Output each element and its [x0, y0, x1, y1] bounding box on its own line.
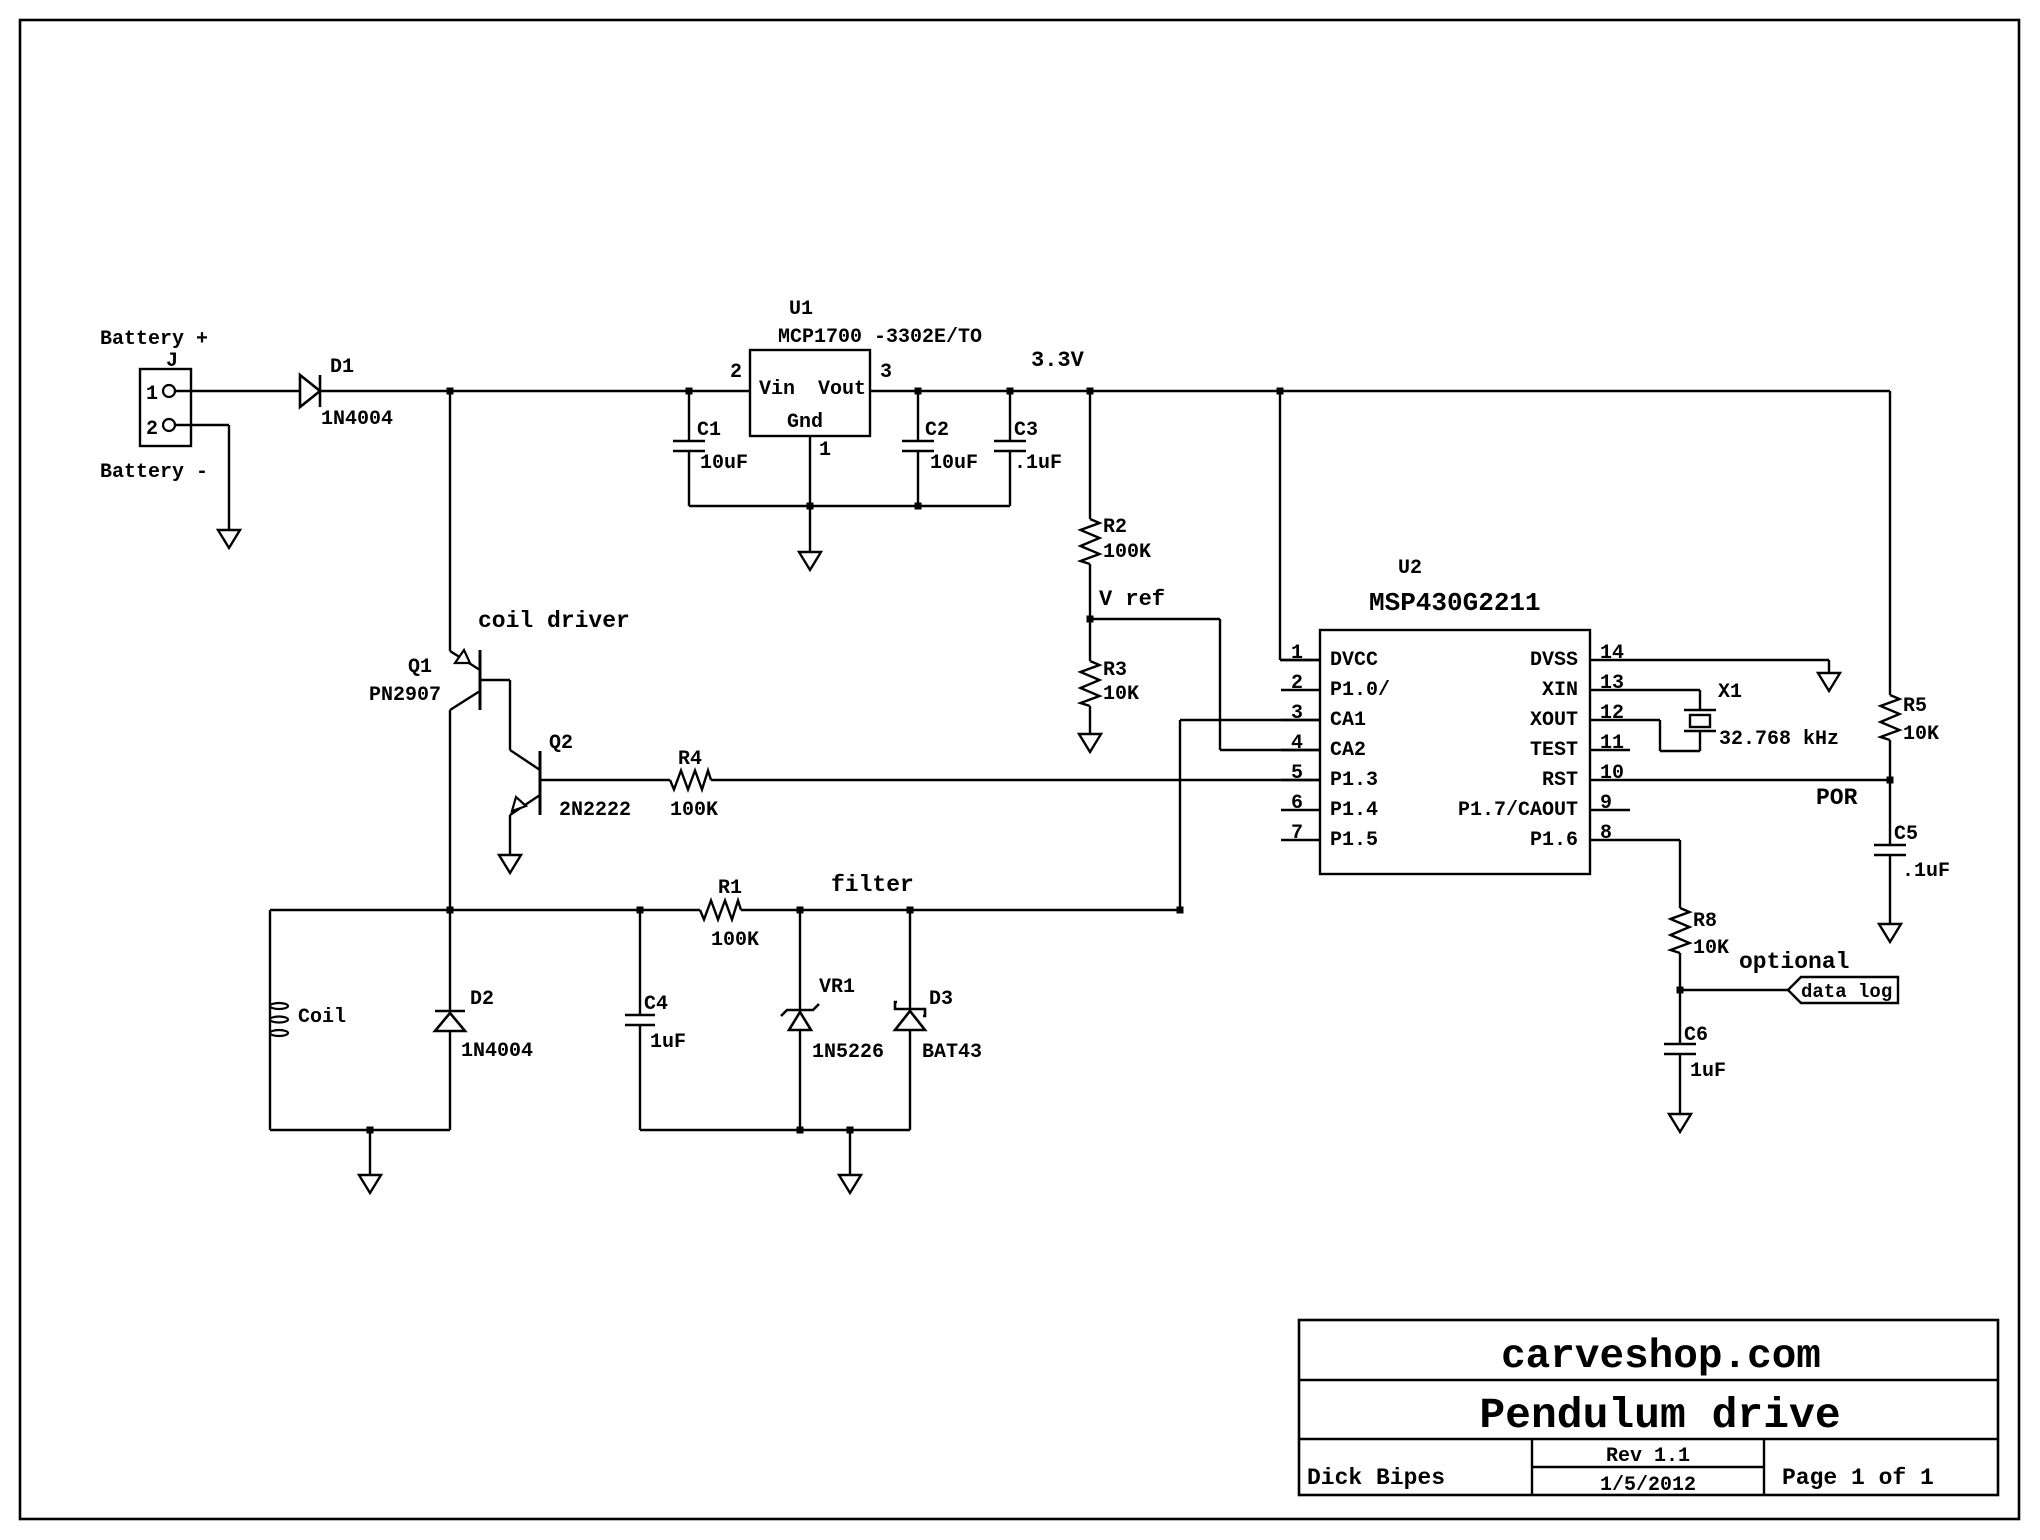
svg-text:POR: POR: [1816, 785, 1858, 811]
wire Q1 base to Q2 collector horizontal: [480, 679, 510, 681]
ground U1: [799, 552, 821, 570]
capacitor C4 symbol: [625, 1014, 655, 1017]
svg-text:C2: C2: [925, 419, 949, 442]
svg-text:10K: 10K: [1693, 937, 1729, 960]
title block divider row1: [1299, 1379, 1998, 1381]
svg-text:1: 1: [1291, 642, 1303, 665]
wire J pin1 to D1 anode: [175, 390, 300, 392]
svg-text:MSP430G2211: MSP430G2211: [1369, 588, 1541, 618]
wire Q1 base to Q2 collector vertical: [509, 680, 511, 750]
wire J pin2 to ground drop: [175, 424, 229, 426]
mcu U2 pin 14 stub: [1590, 659, 1630, 661]
svg-text:10K: 10K: [1903, 723, 1939, 746]
wire R2 top: [1089, 391, 1091, 519]
svg-text:CA1: CA1: [1330, 709, 1366, 732]
svg-text:2: 2: [730, 361, 742, 384]
wire R8 to data log node: [1679, 953, 1681, 990]
wire crystal bottom riser: [1699, 731, 1701, 751]
wire DVSS to ground vertical: [1828, 660, 1830, 673]
svg-text:D3: D3: [929, 988, 953, 1011]
wire into U2 pin 1 DVCC: [1280, 659, 1320, 661]
wire R3 top: [1089, 619, 1091, 661]
junction coil bottom ground: [367, 1127, 374, 1134]
mcu U2 pin 4 stub: [1281, 749, 1320, 751]
wire U1 Gnd pin: [809, 436, 811, 506]
zener diode VR1 cathode bar: [781, 1004, 819, 1016]
svg-text:P1.6: P1.6: [1530, 829, 1578, 852]
wire into U2 pin 3 CA1: [1180, 719, 1320, 721]
wire XOUT to crystal horizontal: [1630, 719, 1660, 721]
mcu U2 pin 6 stub: [1281, 809, 1320, 811]
svg-text:J: J: [166, 350, 178, 373]
diode D1 symbol: [300, 375, 320, 407]
transistor Q2 base bar: [539, 751, 542, 815]
resistor R3 symbol: [1081, 661, 1100, 706]
wire C6 bottom: [1679, 1054, 1681, 1114]
junction main rail C1: [686, 388, 693, 395]
wire D3 top: [909, 910, 911, 1009]
connector J pin 1 circle: [163, 385, 175, 397]
mcu U2 pin 2 stub: [1281, 689, 1320, 691]
schottky diode D3 symbol: [895, 1011, 925, 1030]
wire 3.3V rail down to R5: [1889, 391, 1891, 695]
svg-text:VR1: VR1: [819, 976, 855, 999]
svg-text:PN2907: PN2907: [369, 684, 441, 707]
wire data log node to C6: [1679, 990, 1681, 1044]
ground filter: [839, 1175, 861, 1193]
svg-text:R5: R5: [1903, 695, 1927, 718]
regulator U1 body: [750, 350, 870, 436]
svg-text:R4: R4: [678, 748, 702, 771]
mcu U2 pin 9 stub: [1590, 809, 1630, 811]
wire filter ground drop: [849, 1130, 851, 1175]
svg-text:P1.4: P1.4: [1330, 799, 1378, 822]
svg-text:XIN: XIN: [1542, 679, 1578, 702]
junction filter bottom VR1: [797, 1127, 804, 1134]
svg-text:RST: RST: [1542, 769, 1578, 792]
svg-text:100K: 100K: [670, 799, 718, 822]
mcu U2 pin 8 stub: [1590, 839, 1630, 841]
junction main rail x450: [447, 388, 454, 395]
wire C2 bottom: [917, 451, 919, 506]
junction ground bus U1 Gnd: [807, 503, 814, 510]
transistor Q2 emitter diagonal: [510, 795, 540, 815]
capacitor C1 symbol: [673, 440, 705, 443]
svg-text:3: 3: [1291, 702, 1303, 725]
svg-text:9: 9: [1600, 792, 1612, 815]
svg-text:P1.3: P1.3: [1330, 769, 1378, 792]
net flag data log: [1788, 977, 1898, 1003]
wire CA1 riser vertical: [1179, 720, 1181, 910]
resistor R5 symbol: [1881, 695, 1900, 740]
wire Q1 emitter from rail: [449, 391, 451, 651]
wire C1 top: [688, 391, 690, 441]
wire C2 top: [917, 391, 919, 441]
wire C5 bottom: [1889, 855, 1891, 924]
svg-text:XOUT: XOUT: [1530, 709, 1578, 732]
svg-text:10uF: 10uF: [930, 452, 978, 475]
svg-text:7: 7: [1291, 822, 1303, 845]
svg-text:filter: filter: [831, 872, 914, 898]
mcu U2 pin 1 stub: [1281, 659, 1320, 661]
junction node V ref: [1087, 616, 1094, 623]
ground R3: [1079, 734, 1101, 752]
mcu U2 pin 5 stub: [1281, 779, 1320, 781]
ground Q2 emitter: [499, 855, 521, 873]
transistor Q2 emitter arrow: [512, 797, 526, 811]
inductor Coil loop 1: [270, 1003, 288, 1009]
svg-text:DVSS: DVSS: [1530, 649, 1578, 672]
svg-text:R2: R2: [1103, 516, 1127, 539]
svg-text:1uF: 1uF: [650, 1031, 686, 1054]
mcu U2 pin 7 stub: [1281, 839, 1320, 841]
svg-text:MCP1700 -3302E/TO: MCP1700 -3302E/TO: [778, 326, 982, 349]
svg-text:carveshop.com: carveshop.com: [1501, 1334, 1821, 1380]
wire C3 bottom: [1009, 451, 1011, 506]
junction filter rail VR1: [797, 907, 804, 914]
wire XOUT drop: [1659, 720, 1661, 751]
svg-text:Rev 1.1: Rev 1.1: [1606, 1445, 1690, 1468]
svg-text:D2: D2: [470, 988, 494, 1011]
svg-text:R1: R1: [718, 877, 742, 900]
svg-text:10uF: 10uF: [700, 452, 748, 475]
wire VR1 top: [799, 910, 801, 1010]
svg-text:BAT43: BAT43: [922, 1041, 982, 1064]
wire coil top rail: [270, 909, 700, 911]
junction main rail C2: [915, 388, 922, 395]
svg-text:100K: 100K: [711, 929, 759, 952]
junction node POR: [1887, 777, 1894, 784]
svg-text:6: 6: [1291, 792, 1303, 815]
svg-text:1: 1: [146, 383, 158, 406]
title block divider col2: [1763, 1439, 1765, 1495]
svg-text:V ref: V ref: [1099, 587, 1165, 612]
capacitor C3 symbol: [994, 440, 1026, 443]
wire C3 top: [1009, 391, 1011, 441]
wire VR1 bottom: [799, 1030, 801, 1130]
wire U1 Vout to 3.3V rail: [870, 390, 1890, 392]
wire filter bottom rail: [640, 1129, 910, 1131]
resistor R1 symbol: [700, 901, 741, 920]
svg-text:2: 2: [146, 418, 158, 441]
wire R4 to U2 pin 5 P1.3: [711, 779, 1320, 781]
svg-text:U1: U1: [789, 298, 813, 321]
resistor R4 symbol: [670, 771, 711, 790]
svg-text:P1.0/: P1.0/: [1330, 679, 1390, 702]
svg-text:3: 3: [880, 361, 892, 384]
svg-text:Page 1 of 1: Page 1 of 1: [1782, 1465, 1934, 1491]
junction node data log: [1677, 987, 1684, 994]
svg-text:D1: D1: [330, 356, 354, 379]
svg-text:Q1: Q1: [408, 656, 432, 679]
junction main rail C3: [1007, 388, 1014, 395]
svg-text:Battery +: Battery +: [100, 328, 208, 351]
ground coil: [359, 1175, 381, 1193]
svg-text:.1uF: .1uF: [1014, 452, 1062, 475]
capacitor C5 symbol: [1874, 844, 1906, 847]
resistor R8 symbol: [1671, 908, 1690, 953]
svg-text:Dick Bipes: Dick Bipes: [1307, 1465, 1445, 1491]
wire coil ground drop: [369, 1130, 371, 1175]
svg-text:coil driver: coil driver: [478, 608, 630, 634]
wire D1 cathode to U1 Vin: [320, 390, 750, 392]
mcu U2 pin 11 stub: [1590, 749, 1630, 751]
ground C6: [1669, 1114, 1691, 1132]
wire V ref to CA2 vertical: [1219, 619, 1221, 750]
wire POR to C5: [1889, 780, 1891, 845]
wire R5 to POR node: [1889, 740, 1891, 780]
resistor R2 symbol: [1081, 519, 1100, 564]
wire capacitor ground bus: [689, 505, 1010, 507]
wire XOUT bottom run: [1660, 750, 1700, 752]
wire coil bottom rail: [270, 1129, 450, 1131]
diode D2 cathode bar: [435, 1010, 465, 1013]
wire R3 bottom: [1089, 706, 1091, 734]
svg-text:R3: R3: [1103, 659, 1127, 682]
wire C4 top: [639, 910, 641, 1015]
mcu U2 pin 3 stub: [1281, 719, 1320, 721]
svg-text:Vin: Vin: [759, 378, 795, 401]
svg-text:X1: X1: [1718, 681, 1742, 704]
wire D2 top: [449, 910, 451, 1011]
wire XIN crystal drop: [1699, 690, 1701, 710]
crystal X1 body: [1690, 715, 1710, 727]
wire RST to POR node: [1630, 779, 1890, 781]
wire D3 bottom: [909, 1030, 911, 1130]
wire Q2 emitter to ground: [509, 815, 511, 855]
mcu U2 pin 10 stub: [1590, 779, 1630, 781]
transistor Q2 collector diagonal: [510, 750, 540, 770]
wire P1.6 to R8 vertical: [1679, 840, 1681, 908]
svg-text:12: 12: [1600, 702, 1624, 725]
transistor Q1 emitter diagonal: [450, 651, 480, 670]
wire Q1 collector vertical: [449, 710, 451, 910]
wire DVCC vertical: [1279, 391, 1281, 660]
svg-text:1N4004: 1N4004: [321, 408, 393, 431]
svg-text:2N2222: 2N2222: [559, 799, 631, 822]
diode D1 cathode bar: [319, 375, 322, 407]
diode D2 symbol: [435, 1013, 465, 1031]
svg-text:11: 11: [1600, 732, 1624, 755]
svg-text:TEST: TEST: [1530, 739, 1578, 762]
svg-text:optional: optional: [1739, 949, 1849, 975]
svg-text:10: 10: [1600, 762, 1624, 785]
inductor Coil loop 2: [270, 1017, 288, 1023]
wire C1 bottom: [688, 451, 690, 506]
connector J body: [140, 369, 191, 446]
svg-text:C3: C3: [1014, 419, 1038, 442]
wire R1 to CA1 riser: [741, 909, 1180, 911]
junction filter rail D3: [907, 907, 914, 914]
svg-text:.1uF: .1uF: [1902, 860, 1950, 883]
wire V ref to CA2 horizontal: [1090, 618, 1220, 620]
title block outer box: [1299, 1320, 1998, 1495]
transistor Q1 collector diagonal: [450, 691, 480, 710]
ground battery minus: [218, 530, 240, 548]
wire U1 ground drop: [809, 506, 811, 552]
svg-text:Q2: Q2: [549, 732, 573, 755]
svg-text:5: 5: [1291, 762, 1303, 785]
svg-text:Pendulum drive: Pendulum drive: [1479, 1391, 1840, 1440]
svg-text:100K: 100K: [1103, 541, 1151, 564]
svg-text:Coil: Coil: [298, 1006, 346, 1029]
transistor Q1 emitter arrow: [455, 650, 470, 663]
svg-text:CA2: CA2: [1330, 739, 1366, 762]
crystal X1 bottom plate: [1684, 730, 1716, 733]
wire into U2 pin 4 CA2: [1220, 749, 1320, 751]
mcu U2 pin 13 stub: [1590, 689, 1630, 691]
svg-text:DVCC: DVCC: [1330, 649, 1378, 672]
svg-text:14: 14: [1600, 642, 1624, 665]
junction filter bottom ground: [847, 1127, 854, 1134]
junction filter rail CA1 riser: [1177, 907, 1184, 914]
ground C5: [1879, 924, 1901, 942]
wire to data log flag: [1680, 989, 1788, 991]
svg-text:3.3V: 3.3V: [1031, 348, 1085, 373]
wire XIN to crystal: [1630, 689, 1700, 691]
zener diode VR1 symbol: [789, 1012, 811, 1030]
svg-text:2: 2: [1291, 672, 1303, 695]
junction main rail DVCC: [1277, 388, 1284, 395]
junction main rail R2: [1087, 388, 1094, 395]
inductor Coil loop 3: [270, 1030, 288, 1036]
svg-text:8: 8: [1600, 822, 1612, 845]
svg-text:C5: C5: [1894, 823, 1918, 846]
svg-text:1N4004: 1N4004: [461, 1040, 533, 1063]
svg-text:C4: C4: [644, 993, 668, 1016]
svg-text:data log: data log: [1801, 981, 1892, 1003]
wire DVSS to ground horizontal: [1630, 659, 1829, 661]
crystal X1 top plate: [1684, 709, 1716, 712]
mcu U2 pin 12 stub: [1590, 719, 1630, 721]
junction ground bus C2: [915, 503, 922, 510]
title block divider row2: [1299, 1438, 1998, 1440]
svg-text:Gnd: Gnd: [787, 411, 823, 434]
svg-text:P1.7/CAOUT: P1.7/CAOUT: [1458, 799, 1578, 822]
transistor Q1 base bar: [479, 650, 482, 710]
wire C4 bottom: [639, 1025, 641, 1130]
svg-text:1N5226: 1N5226: [812, 1041, 884, 1064]
capacitor C6 symbol: [1664, 1043, 1696, 1046]
wire R2 to V ref: [1089, 564, 1091, 619]
svg-text:10K: 10K: [1103, 683, 1139, 706]
wire Q2 base to R4: [540, 779, 670, 781]
svg-text:4: 4: [1291, 732, 1303, 755]
junction coil rail Q1 collector: [447, 907, 454, 914]
svg-text:C6: C6: [1684, 1024, 1708, 1047]
svg-text:13: 13: [1600, 672, 1624, 695]
wire battery minus vertical: [228, 425, 230, 530]
svg-text:1/5/2012: 1/5/2012: [1600, 1474, 1696, 1497]
svg-text:R8: R8: [1693, 910, 1717, 933]
svg-text:C1: C1: [697, 419, 721, 442]
connector J pin 2 circle: [163, 419, 175, 431]
title block divider rev date: [1532, 1466, 1764, 1468]
svg-text:1: 1: [819, 439, 831, 462]
capacitor C2 symbol: [902, 440, 934, 443]
svg-text:Vout: Vout: [818, 378, 866, 401]
svg-text:1uF: 1uF: [1690, 1060, 1726, 1083]
svg-text:U2: U2: [1398, 557, 1422, 580]
junction coil rail C4: [637, 907, 644, 914]
mcu U2 body: [1320, 630, 1590, 874]
svg-text:P1.5: P1.5: [1330, 829, 1378, 852]
wire D2 bottom: [449, 1031, 451, 1130]
wire P1.6 to R8 horizontal: [1630, 839, 1680, 841]
title block divider col1: [1531, 1439, 1533, 1495]
svg-text:Battery -: Battery -: [100, 461, 208, 484]
inductor Coil left wire: [269, 910, 271, 1130]
schottky diode D3 cathode bar: [895, 1002, 925, 1016]
ground DVSS: [1818, 673, 1840, 691]
svg-text:32.768 kHz: 32.768 kHz: [1719, 728, 1839, 751]
